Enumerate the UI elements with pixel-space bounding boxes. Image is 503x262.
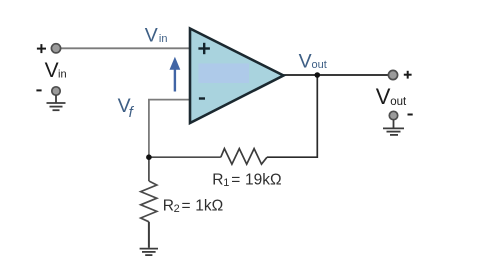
svg-text:V: V <box>299 50 312 72</box>
svg-text:V: V <box>376 84 391 109</box>
svg-text:out: out <box>312 59 327 71</box>
svg-text:=: = <box>231 171 240 188</box>
svg-text:in: in <box>58 68 67 80</box>
svg-text:19kΩ: 19kΩ <box>245 171 282 188</box>
svg-text:out: out <box>390 96 407 108</box>
svg-text:2: 2 <box>174 203 180 215</box>
svg-text:V: V <box>145 24 158 46</box>
svg-text:1kΩ: 1kΩ <box>195 197 223 214</box>
svg-text:V: V <box>45 59 59 82</box>
svg-text:1: 1 <box>223 177 229 189</box>
svg-text:R: R <box>163 197 174 214</box>
svg-text:in: in <box>159 33 168 45</box>
svg-text:=: = <box>182 197 191 214</box>
svg-text:R: R <box>212 171 223 188</box>
